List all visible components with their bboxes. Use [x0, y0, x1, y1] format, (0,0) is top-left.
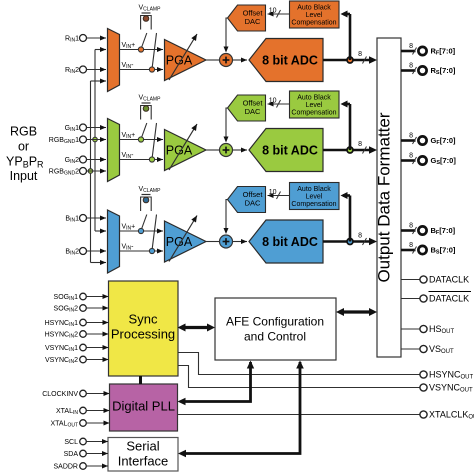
svg-text:CLOCKINV: CLOCKINV [42, 391, 78, 398]
svg-text:RIN1: RIN1 [65, 36, 79, 44]
svg-text:Level: Level [306, 12, 323, 19]
svg-text:Compensation: Compensation [291, 201, 336, 208]
svg-text:Digital PLL: Digital PLL [112, 399, 175, 414]
svg-text:VSYNCIN2: VSYNCIN2 [45, 357, 78, 365]
svg-text:PGA: PGA [166, 144, 193, 158]
svg-text:RS[7:0]: RS[7:0] [431, 66, 456, 76]
svg-text:PGA: PGA [166, 54, 193, 68]
svg-text:GF[7:0]: GF[7:0] [431, 136, 457, 146]
svg-text:8 bit ADC: 8 bit ADC [262, 235, 318, 249]
svg-text:SOGIN1: SOGIN1 [54, 294, 79, 302]
svg-text:8: 8 [358, 51, 362, 58]
svg-text:Processing: Processing [111, 327, 175, 342]
svg-text:XTALOUT: XTALOUT [50, 421, 78, 429]
svg-text:RGBGND1: RGBGND1 [49, 137, 79, 145]
svg-text:VIN+: VIN+ [122, 42, 136, 50]
svg-text:DAC: DAC [245, 17, 261, 26]
svg-text:10: 10 [269, 189, 277, 196]
svg-text:Level: Level [306, 194, 323, 201]
svg-text:BIN1: BIN1 [65, 216, 79, 224]
svg-text:8: 8 [409, 43, 413, 50]
svg-text:Serial: Serial [126, 439, 159, 454]
svg-text:Input: Input [10, 169, 38, 183]
svg-text:8: 8 [409, 133, 413, 140]
svg-text:8 bit ADC: 8 bit ADC [262, 54, 318, 68]
svg-text:VIN-: VIN- [122, 244, 135, 252]
svg-text:XTALIN: XTALIN [56, 408, 78, 416]
svg-text:Output Data Formatter: Output Data Formatter [375, 112, 394, 282]
svg-text:HSYNCIN1: HSYNCIN1 [45, 320, 79, 328]
svg-text:8: 8 [358, 233, 362, 240]
svg-text:8: 8 [409, 153, 413, 160]
svg-text:DAC: DAC [245, 107, 261, 116]
svg-text:RGBGND2: RGBGND2 [49, 169, 79, 177]
svg-text:GIN1: GIN1 [65, 125, 79, 133]
svg-text:Auto Black: Auto Black [297, 5, 331, 12]
svg-text:8: 8 [358, 141, 362, 148]
svg-text:Compensation: Compensation [291, 20, 336, 27]
svg-text:BF[7:0]: BF[7:0] [431, 226, 456, 236]
svg-text:Auto Black: Auto Black [297, 186, 331, 193]
svg-text:RIN2: RIN2 [65, 67, 79, 75]
svg-text:Level: Level [306, 102, 323, 109]
svg-text:Interface: Interface [118, 454, 169, 469]
svg-text:BS[7:0]: BS[7:0] [431, 246, 456, 256]
svg-text:8 bit ADC: 8 bit ADC [262, 144, 318, 158]
svg-text:10: 10 [269, 8, 277, 15]
svg-text:VIN-: VIN- [122, 62, 135, 70]
svg-text:8: 8 [409, 63, 413, 70]
svg-text:GIN2: GIN2 [65, 157, 79, 165]
svg-text:XTALCLKOUT: XTALCLKOUT [429, 410, 474, 421]
svg-text:DATACLK: DATACLK [429, 294, 469, 304]
svg-text:VIN+: VIN+ [122, 132, 136, 140]
svg-text:DATACLK: DATACLK [429, 275, 469, 285]
svg-text:RF[7:0]: RF[7:0] [431, 47, 456, 57]
svg-text:Auto Black: Auto Black [297, 95, 331, 102]
svg-text:SDA: SDA [64, 451, 79, 458]
svg-text:PGA: PGA [166, 235, 193, 249]
svg-text:AFE Configuration: AFE Configuration [226, 315, 324, 329]
svg-text:8: 8 [409, 242, 413, 249]
svg-text:HSYNCIN2: HSYNCIN2 [45, 332, 79, 340]
svg-text:SADDR: SADDR [53, 464, 78, 471]
svg-text:VSYNCIN1: VSYNCIN1 [45, 345, 78, 353]
svg-text:SCL: SCL [64, 439, 78, 446]
svg-text:DAC: DAC [245, 199, 261, 208]
svg-text:and Control: and Control [244, 330, 306, 344]
svg-text:VCLAMP: VCLAMP [139, 5, 162, 13]
svg-text:VIN-: VIN- [122, 152, 135, 160]
svg-text:VCLAMP: VCLAMP [139, 95, 162, 103]
svg-text:Compensation: Compensation [291, 110, 336, 117]
svg-text:10: 10 [269, 98, 277, 105]
svg-text:BIN2: BIN2 [65, 249, 79, 257]
svg-text:RGB: RGB [10, 125, 37, 139]
svg-text:or: or [18, 140, 29, 154]
svg-text:GS[7:0]: GS[7:0] [431, 156, 457, 166]
svg-text:SOGIN2: SOGIN2 [54, 306, 79, 314]
svg-text:Sync: Sync [129, 312, 158, 327]
svg-text:8: 8 [409, 223, 413, 230]
svg-text:VCLAMP: VCLAMP [139, 186, 162, 194]
svg-text:VIN+: VIN+ [122, 224, 136, 232]
